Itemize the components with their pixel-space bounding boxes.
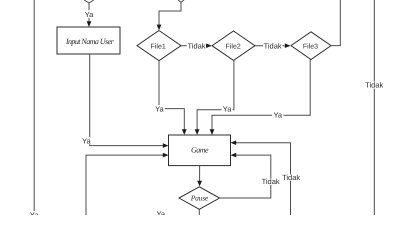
- wire Pause Ya down off-screen: [198, 209, 200, 215]
- svg-text:Game: Game: [191, 145, 209, 154]
- wire File1 Tidak File2: [181, 41, 212, 50]
- svg-text:File2: File2: [226, 42, 241, 50]
- decision tip (off-screen diamond) above File1 connector: [178, 0, 184, 2]
- svg-text:File3: File3: [303, 42, 318, 50]
- decision File2: [212, 31, 255, 60]
- wire from off-screen bottom-left into Game: [86, 153, 169, 215]
- wire File2 Ya down-left into Game top: [195, 60, 234, 134]
- wire from off-screen diamond down-left into File1: [157, 2, 181, 30]
- label Tidak on right tall line: [363, 81, 385, 90]
- process Input Nama User: [57, 27, 120, 54]
- svg-text:Ya: Ya: [155, 105, 164, 114]
- svg-text:Tidak: Tidak: [264, 41, 282, 50]
- wire left tall feedback line: [33, 0, 35, 211]
- wire right tall feedback line: [373, 0, 375, 215]
- svg-text:Ya: Ya: [30, 211, 39, 215]
- svg-text:Pause: Pause: [190, 193, 209, 202]
- svg-text:Ya: Ya: [156, 210, 165, 216]
- svg-text:Tidak: Tidak: [187, 41, 205, 50]
- svg-text:Tidak: Tidak: [365, 81, 383, 90]
- wire Ya into Input Nama User: [84, 3, 95, 27]
- svg-text:Ya: Ya: [223, 105, 232, 114]
- wire File3 right then up off-screen: [331, 0, 340, 46]
- wire Pause Tidak loop back into Game right side: [220, 153, 280, 198]
- label Ya (cut off, bottom-center): [156, 210, 165, 219]
- svg-text:Input Nama User: Input Nama User: [65, 37, 115, 46]
- decision tip (off-screen diamond) above Input Nama User: [84, 0, 94, 3]
- wire Input Nama User down then right into Game (Ya): [81, 54, 169, 148]
- svg-text:Ya: Ya: [85, 10, 94, 19]
- svg-text:Tidak: Tidak: [262, 177, 280, 186]
- svg-text:Ya: Ya: [82, 136, 91, 145]
- decision File3: [291, 32, 331, 60]
- decision Pause: [179, 187, 220, 210]
- label Ya (cut off at bottom-left): [30, 211, 39, 220]
- wire File3 Ya down-left into Game top: [210, 60, 311, 135]
- wire off-screen bottom loop Tidak into Game right side: [231, 140, 301, 215]
- wire Game down into Pause: [197, 166, 202, 187]
- wire File1 Ya down-right into Game top: [154, 61, 187, 135]
- wire File2 Tidak File3: [255, 41, 291, 50]
- svg-text:Ya: Ya: [273, 110, 282, 119]
- process Game: [169, 135, 231, 166]
- svg-text:Tidak: Tidak: [282, 173, 300, 182]
- decision File1: [137, 31, 181, 61]
- svg-text:File1: File1: [151, 42, 166, 50]
